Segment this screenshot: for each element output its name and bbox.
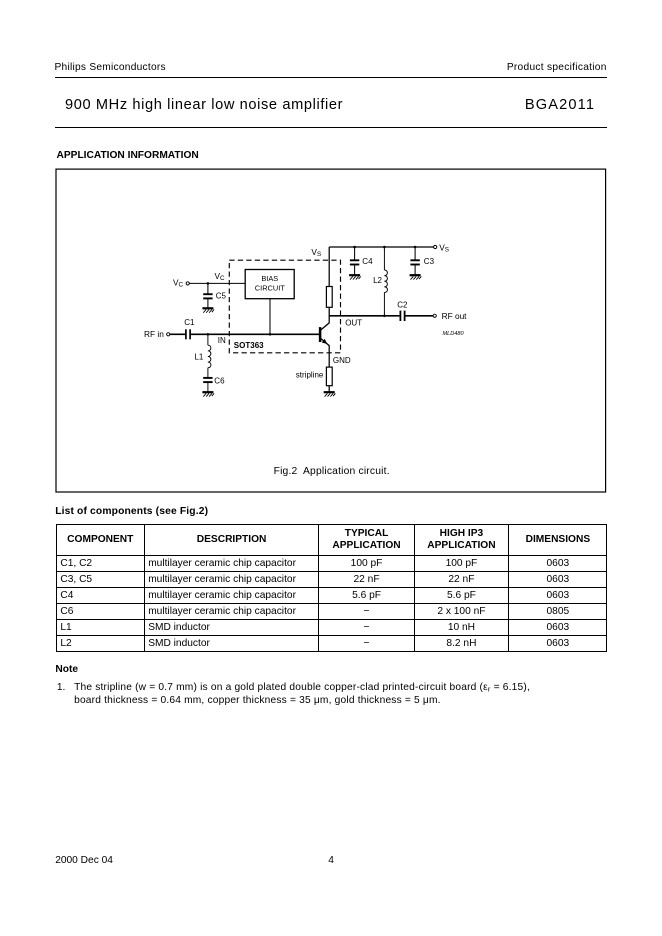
svg-text:L2: L2 bbox=[373, 276, 382, 285]
title rule bbox=[55, 127, 607, 128]
svg-text:RF in: RF in bbox=[144, 329, 164, 339]
ground under emitter bbox=[324, 392, 336, 396]
capacitor C4 bbox=[350, 260, 359, 264]
header rule bbox=[55, 77, 607, 78]
svg-text:VC: VC bbox=[215, 271, 226, 282]
header right bbox=[507, 62, 607, 73]
components table bbox=[56, 524, 608, 652]
wire RF in to C1 bbox=[170, 333, 185, 335]
transistor Q1 emitter lead bbox=[321, 339, 329, 368]
node VC junction bbox=[207, 282, 210, 285]
node L1 junction bbox=[207, 333, 210, 336]
section heading bbox=[57, 150, 199, 161]
inductor L2 bbox=[384, 270, 387, 293]
note heading bbox=[55, 664, 78, 675]
svg-text:BIAS: BIAS bbox=[261, 274, 278, 283]
wire L2 stub bbox=[383, 247, 385, 270]
stripline resistor emitter bbox=[326, 367, 332, 386]
svg-text:IN: IN bbox=[218, 336, 226, 345]
frame of application diagram bbox=[56, 169, 606, 492]
stripline resistor collector bbox=[326, 287, 332, 308]
svg-text:C4: C4 bbox=[362, 257, 373, 266]
terminal RF out bbox=[433, 314, 436, 317]
svg-text:C5: C5 bbox=[216, 292, 227, 301]
terminal VC bbox=[186, 282, 189, 285]
footer page bbox=[328, 855, 334, 866]
capacitor C1 bbox=[186, 329, 190, 339]
footer date bbox=[55, 855, 113, 866]
capacitor C5 bbox=[203, 294, 212, 298]
svg-text:RF out: RF out bbox=[442, 311, 468, 321]
title right bbox=[525, 97, 595, 113]
node C3 junction bbox=[414, 246, 417, 249]
svg-text:SOT363: SOT363 bbox=[234, 341, 264, 350]
wire emitter to ground bbox=[328, 386, 330, 393]
svg-text:C6: C6 bbox=[214, 376, 225, 385]
inductor L1 bbox=[208, 345, 211, 368]
wire L2 to out rail bbox=[383, 293, 385, 316]
bias circuit box U1 bbox=[245, 270, 294, 299]
svg-text:C3: C3 bbox=[424, 257, 435, 266]
svg-text:C2: C2 bbox=[397, 301, 408, 310]
ground under C5 bbox=[202, 308, 214, 312]
ground under C4 bbox=[349, 275, 361, 279]
wire C6 to ground bbox=[207, 382, 209, 392]
svg-text:VC: VC bbox=[173, 278, 184, 289]
svg-text:L1: L1 bbox=[194, 352, 203, 361]
title left bbox=[65, 97, 343, 113]
svg-text:CIRCUIT: CIRCUIT bbox=[255, 284, 285, 293]
capacitor C3 bbox=[410, 260, 419, 264]
wire C4 to ground bbox=[354, 264, 356, 275]
capacitor C6 bbox=[203, 378, 212, 382]
wire C2 to RF out bbox=[406, 315, 434, 317]
wire VS drop bbox=[328, 247, 330, 287]
svg-text:GND: GND bbox=[333, 356, 351, 365]
SOT363 dashed package box bbox=[229, 260, 340, 353]
transistor Q1 collector lead bbox=[321, 307, 329, 330]
wire L1 stub bbox=[207, 334, 209, 345]
wire C3 stub bbox=[414, 247, 416, 260]
note 1 line 1 bbox=[57, 682, 66, 693]
wire L1 to C6 bbox=[207, 368, 209, 378]
wire VC rail bbox=[189, 282, 245, 284]
capacitor C2 bbox=[400, 311, 404, 321]
node C4 junction bbox=[353, 246, 356, 249]
transistor Q1 emitter arrow bbox=[322, 339, 328, 344]
transistor Q1 base bar bbox=[319, 327, 322, 342]
wire C4 stub bbox=[354, 247, 356, 260]
wire C1 to base bbox=[191, 333, 319, 335]
svg-text:OUT: OUT bbox=[345, 318, 362, 327]
note 1 line 2 bbox=[74, 695, 441, 706]
wire OUT rail bbox=[329, 315, 399, 317]
header left bbox=[55, 62, 166, 73]
wire C5 to ground bbox=[207, 298, 209, 308]
svg-text:stripline: stripline bbox=[296, 370, 324, 379]
node bias junction bbox=[269, 333, 272, 336]
node L2 out junction bbox=[383, 315, 386, 318]
node L2 junction top bbox=[383, 246, 386, 249]
svg-text:VS: VS bbox=[439, 243, 449, 254]
ground under C3 bbox=[410, 275, 422, 279]
wire C5 stub bbox=[207, 283, 209, 294]
terminal RF in bbox=[167, 333, 170, 336]
ground under C6 bbox=[202, 392, 214, 396]
terminal VS bbox=[434, 245, 437, 248]
wire bias output drop bbox=[269, 299, 271, 335]
figure caption bbox=[274, 466, 390, 477]
svg-text:MLD480: MLD480 bbox=[443, 331, 465, 337]
wire VS top rail bbox=[329, 246, 433, 248]
svg-text:VS: VS bbox=[311, 247, 321, 258]
wire C3 to ground bbox=[414, 264, 416, 275]
svg-text:C1: C1 bbox=[184, 318, 195, 327]
list heading bbox=[55, 506, 208, 517]
